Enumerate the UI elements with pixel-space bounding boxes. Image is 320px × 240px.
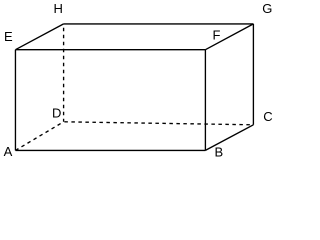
svg-text:A: A [4, 144, 13, 159]
wire edge A-E (left front vertical) [14, 50, 16, 151]
svg-text:G: G [262, 1, 272, 16]
wire edge B-C (bottom right diagonal) [205, 125, 253, 151]
svg-text:B: B [215, 144, 224, 159]
wire edge F-G (top right diagonal) [205, 24, 253, 50]
wire edge A-D (hidden, dashed diagonal) [15, 122, 63, 151]
svg-text:D: D [52, 106, 61, 121]
svg-text:C: C [263, 109, 272, 124]
wire edge D-H (hidden, dashed vertical) [63, 24, 65, 122]
wire edge H-G (top back) [64, 23, 254, 25]
wire edge A-B (bottom front) [15, 149, 205, 151]
wire edge E-H (top left diagonal) [15, 24, 63, 50]
svg-text:F: F [213, 28, 221, 43]
wire edge F-B (right front vertical) [204, 50, 206, 151]
wire edge E-F (top front) [15, 49, 205, 51]
svg-text:E: E [4, 29, 13, 44]
wire edge D-C (hidden, dashed horizontal) [64, 122, 254, 125]
svg-text:H: H [54, 1, 63, 16]
wire edge G-C (right back vertical) [252, 24, 254, 125]
